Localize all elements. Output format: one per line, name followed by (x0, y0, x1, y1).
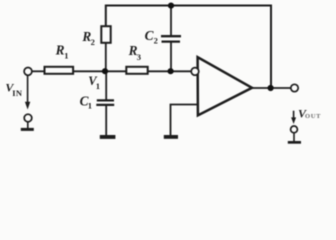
svg-text:IN: IN (12, 88, 23, 98)
svg-text:R: R (55, 43, 65, 58)
svg-text:2: 2 (154, 35, 158, 45)
svg-text:1: 1 (96, 81, 100, 91)
svg-text:2: 2 (91, 37, 95, 47)
svg-text:OUT: OUT (305, 113, 321, 120)
svg-text:3: 3 (137, 52, 141, 62)
svg-text:1: 1 (64, 51, 68, 61)
svg-text:1: 1 (88, 101, 92, 111)
svg-text:C: C (145, 28, 154, 43)
